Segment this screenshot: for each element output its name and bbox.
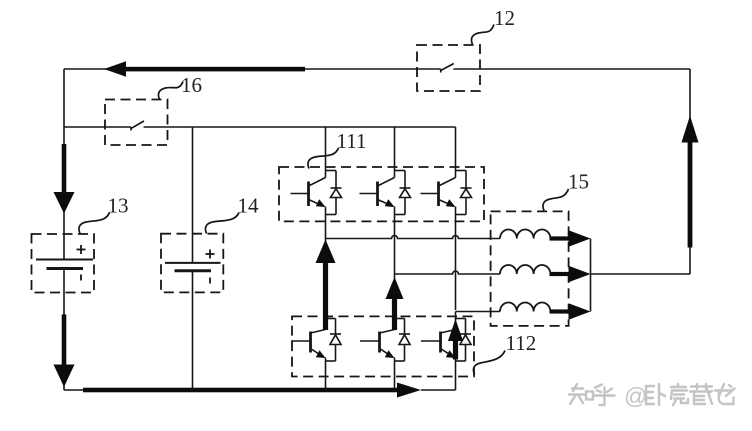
battery 14 minus tick [209,278,211,284]
wire left vertical rail lower part [63,269,65,391]
IGBT Q4 bottom leg1 (with antiparallel diode D4) [291,239,341,391]
inductor bank 15 enclosure (dashed box) [491,211,569,326]
watermark char hu2 [671,384,688,405]
label 16 leader [158,82,183,100]
arrow current leg3 (points up) [448,319,463,360]
battery 14 negative plate [175,269,212,272]
watermark zhihu [569,383,735,409]
inverter 112 enclosure (dashed box) [292,316,474,376]
wire top bus left segment [64,68,441,70]
wire phase A with hops over leg2 and leg3 [326,236,501,239]
svg-text:13: 13 [108,194,129,218]
wire battery 14 vertical [192,127,194,390]
watermark char wo [646,384,665,405]
arrow current L1 output (points right) [550,230,591,246]
wire bottom bus thin lead-in [64,389,85,391]
arrow current bottom bus (points right) [83,383,421,398]
arrow current L3 output (points right) [550,303,591,319]
switch 12 enclosure (dashed box) [417,45,480,91]
IGBT Q1 top leg1 (with antiparallel diode D1) [291,127,342,239]
IGBT Q6 bottom leg3 (with antiparallel diode D6) [421,312,471,391]
IGBT Q3 top leg3 (with antiparallel diode D3) [421,127,472,310]
watermark char cang [690,384,712,404]
label 14 leader [205,213,239,234]
IGBT Q5 bottom leg2 (with antiparallel diode D5) [360,274,410,390]
svg-text:16: 16 [181,73,202,97]
inductor L3 coil [500,303,550,312]
switch 12 blade [441,64,454,73]
watermark char hu [594,385,615,406]
wire top bus right segment [453,68,690,70]
inverter 111 enclosure (dashed box) [279,167,484,221]
battery 13 negative plate [47,267,84,270]
IGBT Q2 top leg2 (with antiparallel diode D2) [360,127,411,274]
label 12 leader [471,25,494,45]
svg-text:12: 12 [494,6,515,30]
watermark char long [715,384,735,404]
wire middle bus left of switch 16 [64,126,131,128]
wire bottom bus thin right segment [421,389,456,391]
wire phase output to right rail [591,273,691,275]
battery 13 enclosure (dashed box) [32,234,95,293]
battery 13 positive plate [36,259,93,261]
watermark char zhi [569,384,593,404]
wire phase C [456,311,501,313]
svg-text:111: 111 [337,129,367,153]
arrow current top bus (points left) [104,61,305,77]
inductor L1 coil [500,230,550,239]
battery 14 plus sign [206,250,215,259]
svg-text:14: 14 [238,194,260,218]
wire right vertical rail [689,69,691,274]
svg-text:112: 112 [506,331,537,355]
svg-text:15: 15 [568,170,589,194]
battery 14 positive plate [165,262,221,264]
svg-text:@: @ [624,383,647,409]
wire left vertical rail [63,69,65,260]
wire phase B with hop over leg3 [395,271,501,274]
inductor L2 coil [500,265,550,274]
wire phase join vertical [590,239,592,312]
switch 16 blade [131,121,144,131]
label 13 leader [79,213,110,234]
arrow current leg2 (points up) [386,277,404,330]
arrow current left rail upper (points down) [54,144,75,214]
arrow current left rail lower (points down) [54,315,75,388]
battery 13 plus sign [77,245,86,254]
wire middle bus right of switch 16 [144,126,456,128]
arrow current right rail (points up) [682,116,699,248]
arrow current leg1 (points up) [316,240,336,331]
switch 16 enclosure (dashed box) [105,100,168,146]
label 112 leader [473,351,505,375]
label 111 leader [308,148,339,169]
label 15 leader [543,189,569,211]
arrow current L2 output (points right) [550,266,591,282]
battery 13 minus tick [80,275,82,281]
battery 14 enclosure (dashed box) [161,234,223,293]
